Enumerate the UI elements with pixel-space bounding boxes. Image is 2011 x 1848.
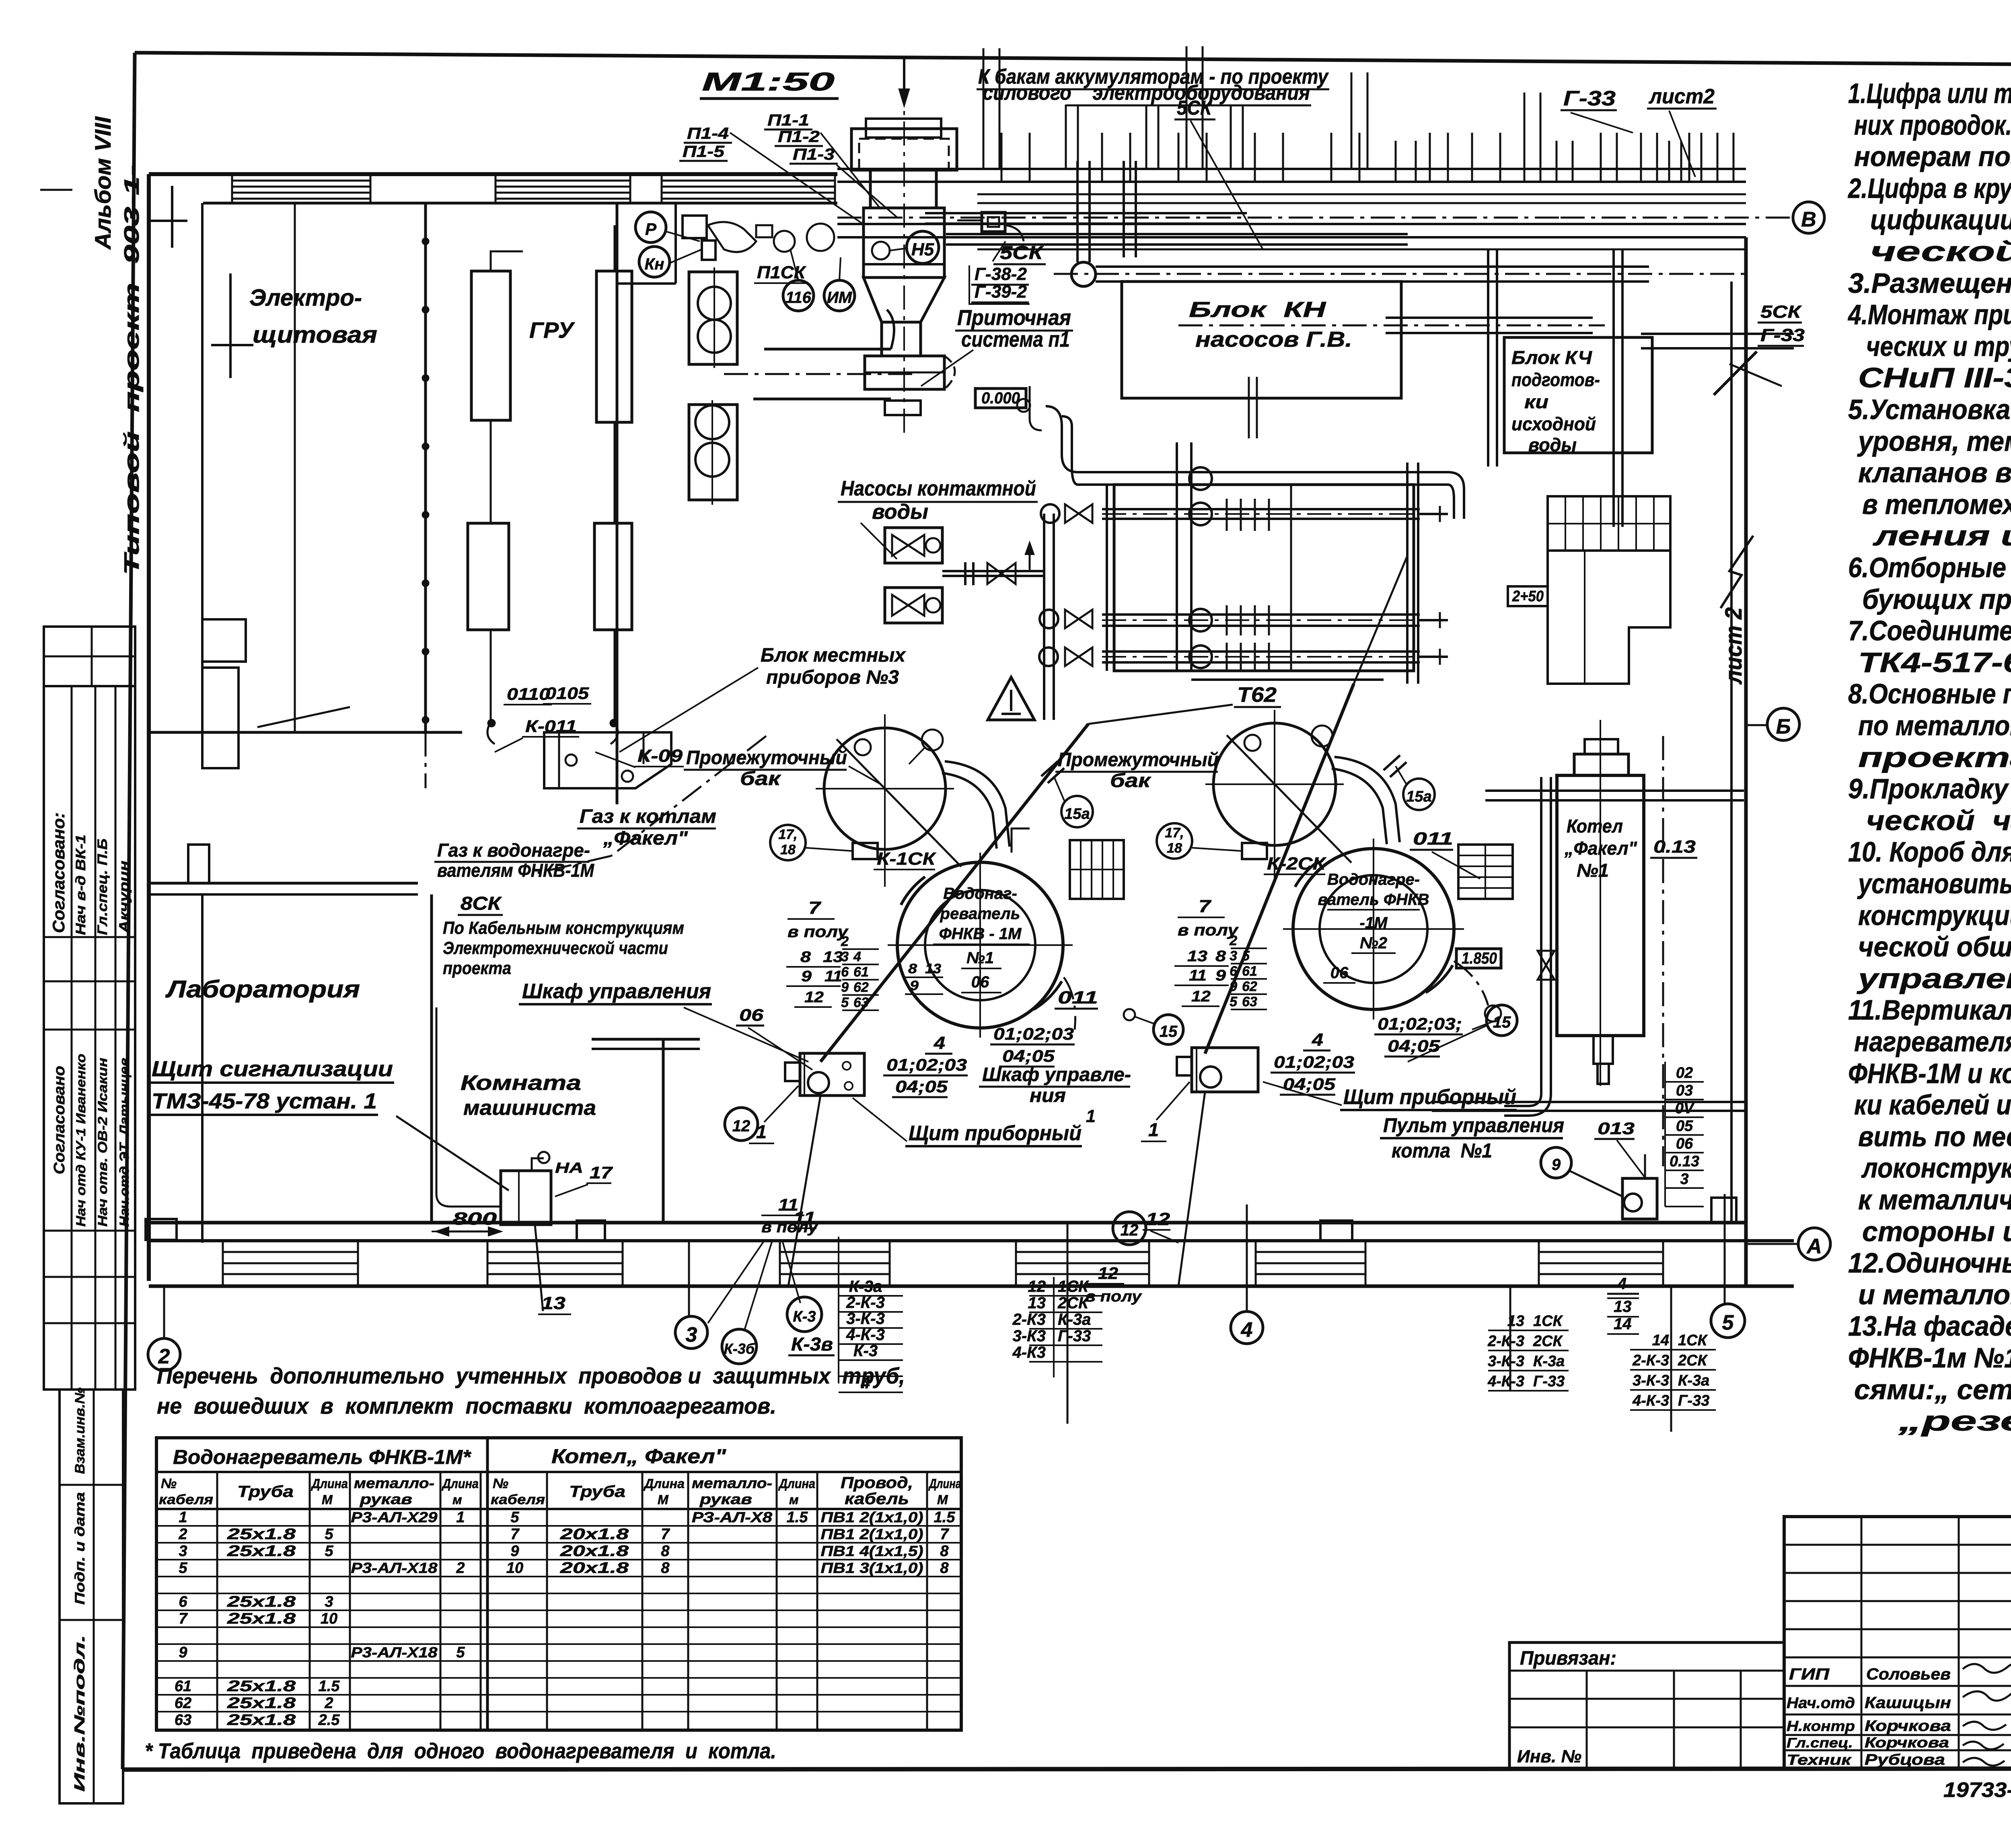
svg-text:кабеля: кабеля bbox=[491, 1492, 545, 1507]
svg-text:2СК: 2СК bbox=[1057, 1294, 1089, 1312]
leaders R Kn to device bbox=[665, 231, 700, 241]
svg-text:12.Одиночные кабели и трубы кр: 12.Одиночные кабели и трубы крепятся к с… bbox=[1848, 1247, 2011, 1279]
svg-text:12: 12 bbox=[1098, 1264, 1118, 1283]
svg-text:М: М bbox=[937, 1492, 948, 1507]
left heater 15 circle bbox=[1154, 1015, 1183, 1044]
svg-text:лист 2: лист 2 bbox=[1721, 607, 1747, 685]
svg-text:подготов-: подготов- bbox=[1511, 369, 1600, 390]
bottom wall window hatches bbox=[223, 1251, 358, 1253]
svg-text:проекта, альбом VII.: проекта, альбом VII. bbox=[1858, 742, 2011, 773]
boiler Fakel N1 body bbox=[1557, 775, 1644, 1036]
svg-text:ПВ1 2(1х1,0): ПВ1 2(1х1,0) bbox=[821, 1509, 923, 1525]
svg-text:4: 4 bbox=[853, 949, 861, 964]
svg-text:1.5: 1.5 bbox=[934, 1509, 956, 1526]
riser valve bbox=[1538, 951, 1555, 980]
svg-text:13: 13 bbox=[925, 961, 941, 976]
contact water pump 1 bbox=[885, 528, 942, 563]
svg-text:М1:50: М1:50 bbox=[702, 67, 835, 96]
svg-text:1.5: 1.5 bbox=[319, 1678, 340, 1695]
svg-text:04;05: 04;05 bbox=[1388, 1036, 1440, 1055]
svg-text:5: 5 bbox=[841, 995, 849, 1010]
svg-text:металло-: металло- bbox=[354, 1475, 434, 1491]
fitting K-1SK bbox=[853, 843, 878, 859]
svg-text:щитовая: щитовая bbox=[253, 322, 377, 348]
svg-text:приборов №3: приборов №3 bbox=[766, 667, 899, 688]
elevation box 1.850 bbox=[1456, 949, 1501, 968]
svg-text:М: М bbox=[322, 1492, 333, 1507]
top exterior wall outer line bbox=[149, 172, 837, 176]
svg-text:Р3-АЛ-Х29: Р3-АЛ-Х29 bbox=[351, 1509, 438, 1525]
svg-text:№1: №1 bbox=[1577, 860, 1609, 881]
leaders 116 IM up bbox=[790, 249, 798, 280]
flange pair on diagonal 1 bbox=[1041, 761, 1058, 776]
svg-text:установить по месту на высоте: установить по месту на высоте не менее 2… bbox=[1857, 868, 2011, 899]
svg-text:К-3а: К-3а bbox=[1058, 1311, 1091, 1328]
machinist room top wall segment bbox=[592, 1038, 700, 1041]
svg-text:1СК: 1СК bbox=[1678, 1332, 1708, 1349]
svg-text:машиниста: машиниста bbox=[463, 1096, 596, 1120]
svg-text:Приточная: Приточная bbox=[957, 306, 1071, 330]
parts table header row line bbox=[156, 1508, 961, 1510]
svg-text:63: 63 bbox=[1242, 994, 1257, 1009]
sheet frame left border bbox=[123, 53, 135, 1769]
leader shchit priborny bbox=[853, 1098, 907, 1141]
control box assembly right bbox=[1192, 1048, 1258, 1092]
signal panel TMZ box bbox=[501, 1171, 551, 1225]
elbow riser top left of bank bbox=[1030, 386, 1042, 430]
svg-text:ИМ: ИМ bbox=[827, 289, 853, 306]
bank outer rectangle bbox=[1114, 485, 1414, 671]
svg-text:5: 5 bbox=[1230, 994, 1238, 1009]
svg-text:4-К-3: 4-К-3 bbox=[1487, 1373, 1524, 1390]
svg-text:61: 61 bbox=[1242, 964, 1257, 979]
heater 1 broken flange arcs bbox=[901, 877, 925, 905]
svg-text:Котел„ Факел": Котел„ Факел" bbox=[551, 1445, 726, 1468]
svg-text:м: м bbox=[789, 1492, 799, 1507]
left exterior wall inner line bbox=[201, 203, 204, 732]
svg-text:Типовой проект 903-1-: Типовой проект 903-1- bbox=[120, 165, 144, 575]
tank 1 diagonal bbox=[837, 739, 961, 867]
svg-text:Согласовано: Согласовано bbox=[51, 1066, 68, 1174]
svg-text:вить по месту на высоте не мен: вить по месту на высоте не менее 2,5м. М… bbox=[1858, 1121, 2011, 1152]
svg-text:Соловьев: Соловьев bbox=[1866, 1665, 1951, 1683]
svg-text:Р3-АЛ-Х18: Р3-АЛ-Х18 bbox=[351, 1644, 438, 1661]
svg-text:1: 1 bbox=[1086, 1106, 1096, 1126]
svg-text:НА: НА bbox=[555, 1159, 583, 1176]
svg-text:проекта: проекта bbox=[443, 958, 511, 978]
svg-text:04;05: 04;05 bbox=[1002, 1046, 1055, 1065]
cabinet connection wires bbox=[490, 420, 492, 523]
svg-text:РЗ-АЛ-Х8: РЗ-АЛ-Х8 bbox=[692, 1509, 772, 1525]
dashdot up from pult bbox=[1644, 1150, 1646, 1178]
left stamp column (Vzam.inv / Podp i data / Inv N podl) bbox=[60, 1390, 123, 1803]
cable along floor dashdot bbox=[432, 1231, 501, 1232]
svg-text:2-К-3: 2-К-3 bbox=[846, 1294, 885, 1311]
dashdot cable to laboratory bbox=[425, 732, 427, 788]
heater1 dashdot outlet arc bbox=[1064, 977, 1075, 1030]
svg-text:Перечень дополнительно учтен: Перечень дополнительно учтенных проводов… bbox=[157, 1363, 905, 1388]
pipe stubs on rack bbox=[1001, 133, 1003, 182]
svg-text:ПВ1 4(1х1,5): ПВ1 4(1х1,5) bbox=[821, 1543, 923, 1559]
svg-text:них проводок. Цифры на двойных: них проводок. Цифры на двойных полочках … bbox=[1854, 109, 2011, 141]
svg-text:ления и вентиляции.: ления и вентиляции. bbox=[1873, 520, 2011, 551]
svg-text:кабель: кабель bbox=[845, 1490, 909, 1508]
heater 2 crosshair bbox=[1373, 839, 1374, 1020]
supply unit arrow down bbox=[903, 56, 905, 101]
left wall tick 2 bbox=[229, 273, 232, 378]
axis circle 4 bbox=[1231, 1311, 1263, 1344]
circle K-3 bbox=[787, 1297, 822, 1332]
pump circles on bank top bbox=[1189, 467, 1212, 490]
svg-text:12: 12 bbox=[1121, 1221, 1139, 1239]
pipe tank2 to heater2 bbox=[1334, 757, 1400, 842]
svg-text:2.5: 2.5 bbox=[318, 1712, 340, 1729]
svg-text:0V: 0V bbox=[1675, 1100, 1695, 1117]
svg-text:62: 62 bbox=[175, 1695, 191, 1712]
pipe rack chord 2 bbox=[925, 212, 1247, 214]
svg-text:Т62: Т62 bbox=[1237, 683, 1277, 707]
svg-text:8.Основные потоки кабелей вдол: 8.Основные потоки кабелей вдоль осей А,Б… bbox=[1848, 678, 2011, 709]
svg-text:ГИП: ГИП bbox=[1789, 1665, 1830, 1683]
axis circle B bbox=[1767, 708, 1799, 740]
svg-text:ПВ1 3(1х1,0): ПВ1 3(1х1,0) bbox=[821, 1560, 923, 1576]
svg-text:06: 06 bbox=[1330, 964, 1349, 982]
supply unit side ellipse arc bbox=[944, 356, 955, 389]
svg-text:6.Отборные устройства местных: 6.Отборные устройства местных приборов, … bbox=[1848, 552, 2011, 583]
parts table half divider bbox=[486, 1438, 489, 1730]
svg-text:Нач.отд: Нач.отд bbox=[1787, 1695, 1855, 1712]
left exterior wall outer line bbox=[147, 174, 151, 1281]
svg-text:П1-2: П1-2 bbox=[778, 128, 820, 146]
svg-text:9: 9 bbox=[179, 1644, 187, 1661]
svg-text:7: 7 bbox=[179, 1610, 188, 1627]
svg-text:ПВ1 2(1х1,0): ПВ1 2(1х1,0) bbox=[821, 1526, 923, 1542]
dimension 800 bbox=[436, 1231, 501, 1233]
intermediate tank 2 circle bbox=[1213, 723, 1336, 845]
svg-text:Нач.отд ЭТ Латынцев: Нач.отд ЭТ Латынцев bbox=[117, 1058, 132, 1227]
signature squiggles bbox=[1963, 1663, 2011, 1673]
svg-text:2СК: 2СК bbox=[1678, 1352, 1708, 1369]
svg-text:11.Вертикальные короба для про: 11.Вертикальные короба для прокладки каб… bbox=[1848, 994, 2011, 1026]
impulse tube dashdot vertical bbox=[1662, 736, 1664, 1166]
right cable diagonal bbox=[1205, 684, 1354, 1054]
svg-text:К-3: К-3 bbox=[793, 1308, 816, 1325]
vertical pipes through blocks bbox=[1487, 249, 1489, 467]
svg-text:01;02;03: 01;02;03 bbox=[993, 1024, 1074, 1043]
circle 12 left bbox=[725, 1108, 758, 1141]
tank 2 gauge circle bbox=[1312, 726, 1332, 746]
svg-text:лист2: лист2 bbox=[1648, 85, 1715, 108]
supply unit funnel bbox=[864, 278, 944, 322]
svg-text:Инв. №: Инв. № bbox=[1517, 1747, 1581, 1766]
block KCh rect bbox=[1504, 337, 1652, 453]
svg-text:№: № bbox=[493, 1476, 508, 1491]
svg-text:не вошедших в комплект пос: не вошедших в комплект поставки котлоагр… bbox=[157, 1393, 776, 1418]
bank pipe row 2 bbox=[1102, 508, 1420, 510]
svg-text:63: 63 bbox=[175, 1712, 191, 1729]
svg-text:к металлической обшивке ФНКВ-1: к металлической обшивке ФНКВ-1М с одной bbox=[1858, 1184, 2011, 1215]
left riser of boiler pipe bbox=[1540, 777, 1542, 1094]
water heater 1 inner circle bbox=[925, 890, 1035, 1000]
svg-text:Гл.спец. П.Б: Гл.спец. П.Б bbox=[95, 839, 110, 935]
svg-text:0110: 0110 bbox=[507, 685, 550, 703]
fan box 1 bbox=[689, 272, 737, 364]
leader shkaf to box bbox=[684, 1007, 808, 1062]
svg-text:2-К3: 2-К3 bbox=[1012, 1311, 1046, 1328]
flange circle on main bbox=[1071, 262, 1096, 286]
circle 17/18 right bbox=[1157, 823, 1192, 859]
instrument circle 116 bbox=[783, 280, 814, 311]
intermediate tank 1 circle bbox=[824, 728, 946, 849]
header flange circle 3 bbox=[1039, 648, 1058, 666]
svg-text:4: 4 bbox=[1312, 1030, 1323, 1050]
leader 5SK right diag bbox=[1729, 364, 1782, 386]
svg-text:уровня, температуры, фланцев и: уровня, температуры, фланцев и регулирую… bbox=[1857, 426, 2011, 457]
top wall window hatch 2 bbox=[496, 180, 630, 182]
extra pipe stubs right band bbox=[1395, 141, 1397, 182]
svg-text:К-3а: К-3а bbox=[849, 1278, 882, 1295]
supply unit centerline dashdot bbox=[903, 80, 905, 438]
svg-text:3: 3 bbox=[841, 949, 849, 964]
svg-text:м: м bbox=[452, 1492, 462, 1507]
svg-text:01;02;03: 01;02;03 bbox=[1274, 1052, 1354, 1071]
svg-text:8: 8 bbox=[800, 949, 811, 966]
water heater FNKV-1M N2 outer circle bbox=[1293, 849, 1454, 1009]
svg-text:№2: №2 bbox=[1360, 934, 1387, 952]
svg-text:12: 12 bbox=[1146, 1209, 1170, 1229]
svg-text:011: 011 bbox=[1413, 829, 1453, 849]
svg-text:1СК: 1СК bbox=[1058, 1278, 1089, 1295]
supply unit chimney stack top bbox=[866, 119, 941, 138]
bank top elbow left bbox=[1046, 406, 1078, 472]
svg-text:„Факел": „Факел" bbox=[603, 828, 688, 849]
leader nasosy bbox=[861, 523, 897, 559]
bank bottom pipe bbox=[1191, 670, 1407, 672]
fan circles 2 bbox=[695, 405, 729, 439]
svg-text:ФНКВ-1М и корпусу шкафа управл: ФНКВ-1М и корпусу шкафа управления. Лотк… bbox=[1848, 1058, 2011, 1089]
svg-text:Техник: Техник bbox=[1787, 1751, 1852, 1768]
svg-text:62: 62 bbox=[1242, 979, 1257, 994]
svg-text:К-3а: К-3а bbox=[1533, 1353, 1565, 1370]
svg-text:17,: 17, bbox=[1165, 825, 1184, 841]
svg-text:13.На фасаде шкафов управления: 13.На фасаде шкафов управления водонагре… bbox=[1848, 1310, 2011, 1342]
svg-text:1: 1 bbox=[456, 1509, 465, 1526]
svg-text:6: 6 bbox=[179, 1593, 187, 1610]
svg-text:Газ к котлам: Газ к котлам bbox=[580, 806, 716, 827]
svg-text:4-К-3: 4-К-3 bbox=[846, 1326, 885, 1344]
svg-text:4: 4 bbox=[1617, 1275, 1626, 1293]
gas dashdot diagonal left bbox=[611, 736, 766, 856]
svg-text:* Таблица приведена для одн: * Таблица приведена для одного водонагре… bbox=[145, 1739, 776, 1763]
svg-text:25х1.8: 25х1.8 bbox=[227, 1593, 296, 1610]
svg-text:кабеля: кабеля bbox=[159, 1492, 213, 1507]
svg-text:0.13: 0.13 bbox=[1670, 1153, 1699, 1170]
svg-text:Г-33: Г-33 bbox=[1678, 1392, 1709, 1409]
svg-text:воды: воды bbox=[1528, 434, 1577, 455]
valve cluster near P1SK bbox=[774, 231, 795, 252]
laboratory top niche wall bbox=[149, 882, 418, 885]
svg-text:Комната: Комната bbox=[461, 1071, 581, 1095]
bank inner vertical pipe bbox=[1176, 442, 1178, 671]
device fitting blob bbox=[708, 222, 756, 252]
svg-text:0105: 0105 bbox=[545, 684, 589, 703]
parts table row lines bbox=[156, 1525, 961, 1527]
riser pipes down to flange bbox=[1076, 161, 1079, 262]
svg-text:5: 5 bbox=[325, 1526, 333, 1543]
GRU cabinet 4 bbox=[594, 523, 632, 630]
svg-text:3: 3 bbox=[179, 1543, 187, 1560]
svg-text:Н.контр: Н.контр bbox=[1787, 1718, 1855, 1734]
svg-text:3: 3 bbox=[1680, 1171, 1688, 1188]
svg-text:61: 61 bbox=[175, 1678, 191, 1695]
svg-text:12: 12 bbox=[1191, 988, 1211, 1005]
stack A vertical leader bbox=[838, 1237, 839, 1383]
svg-text:Г-39-2: Г-39-2 bbox=[975, 282, 1027, 302]
svg-text:5СК: 5СК bbox=[1000, 242, 1044, 263]
supply unit chimney dashed box bbox=[859, 139, 949, 169]
svg-text:Р3-АЛ-Х18: Р3-АЛ-Х18 bbox=[351, 1560, 438, 1576]
leader fan lines to K circles bbox=[708, 1241, 764, 1323]
svg-text:4: 4 bbox=[1241, 1318, 1253, 1342]
pump discharge pipe bbox=[942, 570, 1044, 572]
svg-text:Альбом VIII: Альбом VIII bbox=[90, 116, 115, 251]
tank 1 fitting circle bbox=[855, 739, 871, 755]
svg-text:Длина: Длина bbox=[310, 1476, 348, 1491]
bank left vertical pipe bbox=[1106, 486, 1108, 671]
svg-text:Промежуточный: Промежуточный bbox=[686, 747, 847, 769]
svg-text:силового электрооборудовани: силового электрооборудования bbox=[983, 81, 1310, 105]
svg-text:9: 9 bbox=[841, 980, 849, 995]
svg-text:7: 7 bbox=[808, 898, 822, 918]
block KN pumps GV rect bbox=[1122, 282, 1401, 398]
right plan wall outer bbox=[1744, 237, 1748, 1286]
svg-text:Акчурин: Акчурин bbox=[117, 861, 132, 933]
svg-text:5: 5 bbox=[456, 1644, 465, 1661]
svg-text:„Факел": „Факел" bbox=[1564, 838, 1637, 859]
5SK fitting box bbox=[982, 212, 1005, 232]
leader from label to panel bbox=[396, 1116, 509, 1190]
leader box for stack bbox=[969, 241, 1030, 304]
svg-text:Гл.спец.: Гл.спец. bbox=[1787, 1735, 1853, 1751]
svg-text:011: 011 bbox=[1058, 988, 1098, 1007]
svg-text:4-К-3: 4-К-3 bbox=[1632, 1392, 1669, 1409]
svg-text:металло-: металло- bbox=[692, 1475, 772, 1491]
svg-text:вателям ФНКВ-1М: вателям ФНКВ-1М bbox=[437, 860, 595, 881]
svg-text:02: 02 bbox=[1676, 1065, 1693, 1081]
svg-text:1.Цифра или трубы соответствуе: 1.Цифра или трубы соответствует маркиров… bbox=[1848, 78, 2011, 109]
svg-text:11: 11 bbox=[825, 968, 842, 985]
svg-text:сями:„ сетевые насосы",„основн: сями:„ сетевые насосы",„основной насос", bbox=[1854, 1374, 2011, 1405]
strut diagonal right bbox=[1714, 352, 1757, 395]
svg-text:Взам.инв.№: Взам.инв.№ bbox=[72, 1388, 88, 1474]
svg-text:ческой части проекта, альбо: ческой части проекта, альбом VII. bbox=[1866, 805, 2011, 836]
top exterior wall inner line bbox=[203, 202, 837, 205]
svg-text:2: 2 bbox=[841, 934, 849, 949]
left approval table (rotated signatures) bbox=[44, 686, 135, 1390]
leader blok mestnykh bbox=[619, 668, 758, 752]
svg-text:П1-1: П1-1 bbox=[767, 111, 809, 129]
svg-text:цификации, альбом X или обозна: цификации, альбом X или обозначению по э… bbox=[1870, 204, 2011, 235]
tank 2 centerlines bbox=[1274, 710, 1275, 883]
svg-text:3-К3: 3-К3 bbox=[1013, 1327, 1046, 1345]
small wall device bbox=[683, 216, 707, 238]
svg-text:и металлоконструкциям на скоб: и металлоконструкциям на скобах. bbox=[1858, 1279, 2011, 1310]
duct elbow to unit bbox=[887, 310, 894, 349]
svg-text:ФНКВ - 1М: ФНКВ - 1М bbox=[939, 925, 1022, 943]
svg-text:Г-33: Г-33 bbox=[1058, 1327, 1091, 1345]
svg-text:4-К3: 4-К3 bbox=[1012, 1344, 1046, 1361]
svg-text:Нач в-д ВК-1: Нач в-д ВК-1 bbox=[73, 835, 88, 935]
svg-text:нагревателя ФНКВ-1м крепить к: нагревателя ФНКВ-1м крепить к металличес… bbox=[1854, 1026, 2011, 1057]
svg-text:Корчкова: Корчкова bbox=[1865, 1718, 1951, 1735]
svg-text:Щит сигнализации: Щит сигнализации bbox=[152, 1057, 393, 1081]
svg-text:18: 18 bbox=[780, 842, 796, 857]
svg-text:20х1.8: 20х1.8 bbox=[560, 1560, 629, 1577]
svg-text:„резервный насос".: „резервный насос". bbox=[1898, 1405, 2011, 1437]
svg-text:в тепломеханической части прое: в тепломеханической части проекта и в ча… bbox=[1862, 489, 2011, 520]
heater 2 broken flange arcs bbox=[1295, 861, 1319, 887]
air duct axis dash-dot bbox=[724, 373, 917, 375]
svg-text:К-3б: К-3б bbox=[724, 1340, 755, 1357]
circle 17/18 left bbox=[770, 825, 806, 860]
circle 15a right bbox=[1403, 779, 1435, 810]
svg-text:номерам позиций по перечню сос: номерам позиций по перечню составных час… bbox=[1854, 141, 2011, 172]
svg-text:ТК4-517-69, ГМА.: ТК4-517-69, ГМА. bbox=[1858, 647, 2011, 678]
axis V long dashdot bbox=[837, 217, 1561, 219]
svg-text:25х1.8: 25х1.8 bbox=[227, 1543, 296, 1560]
svg-text:А: А bbox=[1806, 1235, 1822, 1258]
bank flange ticks bbox=[1226, 499, 1228, 531]
right plan wall inner bbox=[1730, 282, 1733, 1223]
svg-text:8: 8 bbox=[940, 1543, 949, 1560]
fan circles 1 bbox=[698, 287, 731, 320]
axis circle 3 bbox=[675, 1316, 707, 1348]
svg-text:13: 13 bbox=[1614, 1298, 1632, 1316]
pipe above boiler bbox=[1485, 789, 1744, 792]
svg-text:Щит приборный: Щит приборный bbox=[1343, 1085, 1516, 1109]
svg-text:ватель ФНКВ: ватель ФНКВ bbox=[1318, 891, 1429, 909]
fitting K-2SK bbox=[1242, 843, 1267, 859]
svg-text:1: 1 bbox=[1148, 1119, 1159, 1140]
svg-text:Промежуточный: Промежуточный bbox=[1058, 749, 1219, 771]
machinist room right wall bbox=[662, 1039, 665, 1223]
svg-text:Нач отв. ОВ-2 Исакин: Нач отв. ОВ-2 Исакин bbox=[95, 1058, 110, 1227]
svg-text:06: 06 bbox=[971, 973, 989, 991]
svg-text:0.000: 0.000 bbox=[981, 389, 1020, 407]
svg-text:стороны и шкафу управления с д: стороны и шкафу управления с другой. bbox=[1862, 1216, 2011, 1247]
svg-text:ческих и трубных проводок выпо: ческих и трубных проводок выполнить согл… bbox=[1866, 331, 2011, 362]
circle 9 bbox=[1541, 1147, 1571, 1178]
panel top symbol bbox=[532, 1158, 544, 1171]
instrument circle IM bbox=[824, 280, 855, 311]
svg-text:3: 3 bbox=[686, 1323, 697, 1346]
svg-text:15а: 15а bbox=[1064, 806, 1090, 822]
svg-text:2+50: 2+50 bbox=[1512, 588, 1544, 605]
svg-text:Насосы контактной: Насосы контактной bbox=[841, 477, 1036, 500]
vertical header pipe bbox=[1043, 514, 1045, 720]
svg-text:в полу: в полу bbox=[1085, 1288, 1142, 1305]
boiler chimney bbox=[1574, 754, 1629, 775]
svg-text:в полу: в полу bbox=[761, 1219, 818, 1236]
svg-text:бак: бак bbox=[740, 768, 781, 789]
main hot water pipe double bbox=[1096, 265, 1649, 268]
svg-text:25х1.8: 25х1.8 bbox=[227, 1695, 296, 1712]
svg-text:12: 12 bbox=[804, 989, 824, 1006]
svg-text:04;05: 04;05 bbox=[895, 1077, 948, 1096]
bank right top elbow to heater area bbox=[1448, 472, 1464, 519]
svg-text:0.13: 0.13 bbox=[1653, 837, 1696, 857]
svg-text:К-3а: К-3а bbox=[1678, 1372, 1709, 1389]
